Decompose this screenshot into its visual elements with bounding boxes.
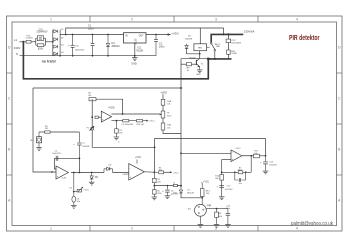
- svg-text:78L08: 78L08: [135, 38, 137, 45]
- svg-text:1k: 1k: [173, 182, 175, 184]
- svg-text:-: -: [130, 167, 131, 170]
- svg-text:1M: 1M: [45, 128, 48, 130]
- svg-text:220k: 220k: [157, 193, 161, 195]
- svg-text:LM324: LM324: [123, 174, 130, 176]
- svg-text:+VCC: +VCC: [135, 157, 142, 159]
- svg-text:-: -: [102, 113, 103, 116]
- svg-text:220k: 220k: [173, 193, 177, 195]
- svg-text:ZMD10: ZMD10: [112, 45, 121, 48]
- svg-text:47k: 47k: [119, 132, 122, 134]
- svg-text:120R: 120R: [231, 53, 237, 55]
- svg-text:1: 1: [50, 18, 52, 22]
- svg-text:100n/630V: 100n/630V: [231, 42, 241, 44]
- svg-text:10A: 10A: [216, 45, 220, 48]
- svg-text:OUT: OUT: [139, 35, 144, 37]
- svg-text:230V: 230V: [14, 46, 21, 50]
- svg-text:100n: 100n: [159, 46, 165, 49]
- svg-text:palmtit@yahoo.co.uk: palmtit@yahoo.co.uk: [291, 221, 333, 227]
- svg-text:2: 2: [131, 227, 133, 231]
- svg-text:L1: L1: [14, 38, 18, 42]
- svg-text:100u/25V: 100u/25V: [75, 49, 85, 51]
- svg-text:no trafo!: no trafo!: [42, 60, 56, 64]
- svg-text:100u/25V: 100u/25V: [52, 153, 61, 155]
- svg-text:10u: 10u: [77, 201, 80, 203]
- svg-text:1: 1: [50, 227, 52, 231]
- svg-text:BC546: BC546: [189, 57, 196, 59]
- svg-text:2: 2: [131, 18, 133, 22]
- svg-text:78L08: 78L08: [136, 49, 144, 52]
- svg-text:N: N: [16, 52, 18, 56]
- svg-text:GND: GND: [131, 62, 137, 65]
- svg-text:100n: 100n: [88, 28, 94, 31]
- svg-text:1N4148: 1N4148: [185, 38, 193, 40]
- svg-text:4u7/16V: 4u7/16V: [225, 189, 233, 191]
- svg-text:+VCC: +VCC: [235, 148, 241, 150]
- svg-text:+VCC: +VCC: [173, 172, 179, 174]
- svg-text:IN: IN: [125, 35, 128, 37]
- svg-text:230V/6A: 230V/6A: [244, 30, 255, 34]
- svg-text:C9 100n/63V: C9 100n/63V: [122, 124, 134, 126]
- svg-text:-: -: [232, 152, 233, 155]
- svg-text:GND: GND: [196, 74, 201, 76]
- svg-text:+VDD: +VDD: [160, 92, 167, 95]
- svg-text:1M: 1M: [88, 95, 91, 97]
- svg-text:+VDD: +VDD: [108, 106, 115, 109]
- svg-text:10k: 10k: [167, 127, 170, 129]
- svg-text:+VCC: +VCC: [203, 181, 210, 183]
- svg-text:100n/400V: 100n/400V: [36, 32, 48, 34]
- svg-text:R1A: R1A: [167, 100, 172, 103]
- svg-text:10k: 10k: [254, 153, 257, 155]
- svg-text:10k: 10k: [167, 104, 170, 106]
- svg-text:10u/16V: 10u/16V: [269, 164, 277, 166]
- svg-text:+: +: [68, 43, 70, 47]
- svg-text:+VDC: +VDC: [171, 32, 179, 36]
- svg-text:3: 3: [215, 18, 217, 22]
- svg-text:+VCC: +VCC: [149, 121, 155, 123]
- svg-text:R1B: R1B: [167, 125, 172, 127]
- svg-text:1.6/250: 1.6/250: [25, 38, 33, 40]
- svg-text:4: 4: [296, 18, 298, 22]
- svg-text:-: -: [57, 168, 58, 171]
- svg-text:PIR: PIR: [207, 204, 211, 207]
- svg-text:100/20V: 100/20V: [82, 146, 90, 148]
- svg-text:R10 1M: R10 1M: [137, 124, 144, 126]
- svg-text:+VCC: +VCC: [83, 189, 89, 191]
- svg-text:4: 4: [296, 227, 298, 231]
- svg-text:10k: 10k: [159, 169, 162, 171]
- svg-text:1N4148: 1N4148: [187, 192, 195, 194]
- svg-text:820k: 820k: [38, 49, 44, 51]
- svg-text:56k: 56k: [215, 178, 218, 180]
- svg-text:560k: 560k: [238, 170, 242, 172]
- svg-text:IC2B: IC2B: [62, 178, 67, 180]
- svg-text:PIR detektor: PIR detektor: [289, 33, 320, 42]
